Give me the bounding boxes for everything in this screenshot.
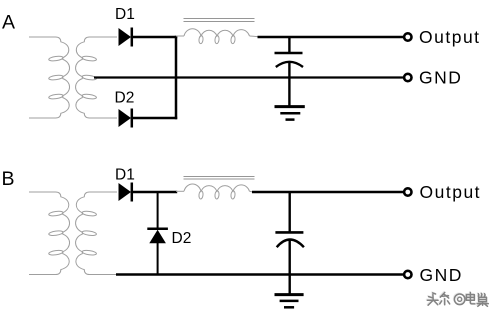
capacitor C2 curved plate	[277, 240, 304, 248]
svg-text:D1: D1	[115, 6, 135, 23]
diode D2 (B)	[147, 229, 168, 244]
transformer T1 primary loop 1	[48, 56, 63, 62]
wire: D1 cathode to junction	[132, 36, 177, 38]
wire: GND rail to ground symbol A	[288, 78, 290, 107]
transformer T1 secondary loop 1	[82, 56, 97, 62]
transformer T1 primary winding (left)	[29, 37, 70, 118]
inductor L2 core lines	[184, 176, 255, 178]
transformer T2 secondary loop 3	[82, 250, 97, 256]
wire: inductor to output rail (thin lead, B)	[250, 190, 254, 193]
wire: GND rail B	[116, 273, 404, 275]
wire: inductor to output rail (thin lead)	[250, 35, 259, 38]
watermark 头条@电巢	[427, 292, 488, 306]
ground symbol B	[275, 295, 304, 308]
wire: GND rail to ground symbol B	[289, 275, 291, 295]
capacitor C1 bottom stem	[288, 61, 290, 77]
inductor L2 coil loop 1	[199, 191, 204, 200]
capacitor C1 top plate	[275, 52, 303, 55]
wire: D1 rail to inductor (thin lead, B)	[176, 190, 184, 192]
svg-text:GND: GND	[419, 68, 462, 88]
wire: D2 bottom stem (B)	[157, 243, 159, 275]
wire: D1 cathode to coil (B)	[132, 191, 177, 193]
output terminal A	[404, 33, 411, 40]
inductor L2 coil loop 3	[231, 191, 236, 200]
svg-text:GND: GND	[420, 265, 463, 285]
transformer T2 primary loop 1	[48, 211, 63, 217]
GND terminal A	[404, 74, 411, 81]
transformer T1 primary loop 2	[48, 75, 63, 81]
transformer T2 secondary winding (right)	[76, 192, 117, 275]
GND terminal B	[404, 271, 411, 278]
ground symbol A	[275, 107, 305, 120]
inductor L1 coil loop 2	[215, 35, 220, 44]
inductor L1 coil	[184, 29, 250, 36]
transformer T2 secondary loop 2	[82, 230, 97, 236]
svg-text:A: A	[2, 11, 15, 33]
wire: output rail B	[252, 191, 404, 193]
wire: junction to inductor (thin lead)	[176, 35, 184, 37]
capacitor C2 top plate	[275, 231, 303, 234]
transformer T2 primary winding (left)	[29, 192, 70, 275]
wire: junction vertical (D1/D2 cathodes)	[175, 36, 178, 119]
svg-text:D1: D1	[115, 166, 135, 183]
inductor L1 coil loop 1	[199, 35, 204, 44]
capacitor C1 curved plate	[276, 62, 303, 67]
transformer T1 secondary loop 2 (center tap)	[82, 75, 97, 81]
capacitor C2 bottom stem	[289, 239, 291, 274]
transformer T1 secondary loop 3	[82, 94, 97, 100]
inductor L1 coil loop 3	[231, 35, 236, 44]
transformer T1 primary loop 3	[48, 94, 63, 100]
capacitor C1 top stem	[288, 37, 290, 52]
transformer T1 secondary winding (right)	[76, 37, 117, 118]
capacitor C2 top stem	[289, 192, 291, 232]
diode D1 (B)	[119, 183, 132, 202]
svg-text:B: B	[2, 168, 15, 190]
transformer T2 primary loop 2	[48, 230, 63, 236]
transformer T2 secondary loop 1	[82, 211, 97, 217]
inductor L2 coil loop 2	[215, 191, 220, 200]
diode D1	[119, 28, 132, 47]
svg-text:D2: D2	[115, 89, 135, 106]
wire: D2 cathode to junction	[132, 117, 177, 119]
wire: output rail A	[258, 36, 404, 38]
svg-text:D2: D2	[172, 230, 192, 247]
svg-text:Output: Output	[420, 182, 482, 202]
output terminal B	[404, 188, 411, 195]
svg-text:Output: Output	[419, 27, 481, 47]
wire: D2 top stem (B)	[157, 192, 159, 228]
transformer T2 primary loop 3	[48, 250, 63, 256]
inductor L1 core lines	[184, 18, 255, 20]
diode D2	[119, 109, 132, 128]
inductor L2 coil	[184, 184, 250, 191]
wire: GND rail A (center tap)	[94, 76, 404, 78]
